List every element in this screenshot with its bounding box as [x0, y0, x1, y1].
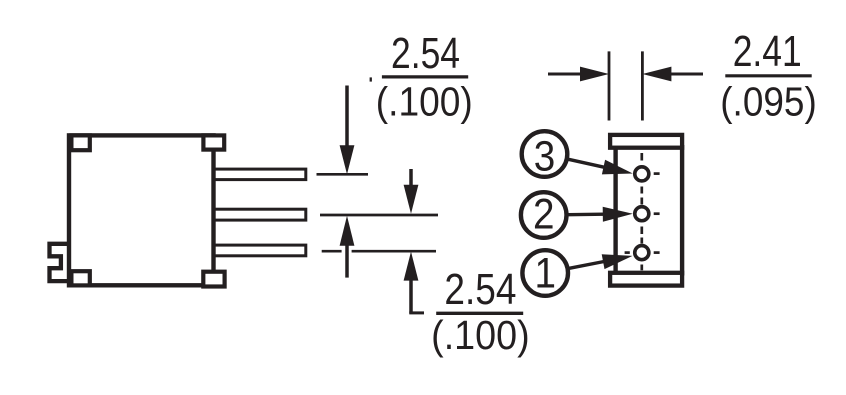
svg-text:2.54: 2.54: [391, 30, 460, 78]
side dash right of pin hole 3: [654, 172, 660, 175]
dimension extension line at pin 2 level: [320, 214, 438, 217]
corner standoff top-right: [203, 135, 224, 149]
leader arrow from 2 to pin hole 2: [568, 212, 604, 216]
width dimension extension line left: [608, 51, 611, 120]
front view bottom cap: [610, 273, 682, 286]
bottom dimension fraction bar: [436, 312, 523, 315]
side dash right of pin hole 1: [654, 251, 660, 254]
adjustment screw profile (left side zigzag): [50, 244, 70, 281]
trimmer body outline (side view): [69, 135, 214, 285]
width dimension extension line right: [641, 51, 644, 120]
dashed centerline segment below pin hole 1: [640, 265, 643, 271]
width dimension arrow pointing left: [668, 73, 703, 76]
terminal label circle 3: [522, 131, 568, 177]
pin 1 lead (bottom, side view): [214, 245, 306, 256]
svg-text:2.54: 2.54: [444, 266, 516, 314]
dimension extension line at pin 1 level (left segment): [322, 250, 342, 253]
dashed centerline segments between pin holes 2 and 1: [640, 227, 643, 235]
front view top cap: [610, 135, 682, 148]
pin hole 1 (bottom): [635, 246, 649, 260]
dimension arrow up to pin2 line: [345, 244, 349, 278]
dimension arrow up to pin1 line with elbow leader: [409, 278, 413, 314]
svg-text:(.100): (.100): [431, 312, 530, 358]
svg-text:2.41: 2.41: [733, 28, 802, 76]
corner standoff bottom-right: [203, 272, 224, 287]
leader arrow from 1 to pin hole 1: [569, 262, 604, 269]
svg-text:(.100): (.100): [376, 78, 473, 124]
pin 3 lead (top, side view): [214, 169, 306, 180]
front view body: [616, 147, 683, 273]
corner standoff top-left: [71, 135, 89, 150]
svg-text:3: 3: [534, 132, 556, 180]
dashed centerline segment above pin hole 3: [640, 153, 643, 161]
stray tick mark left of top label: [370, 77, 372, 81]
top dimension fraction bar: [382, 75, 468, 78]
dimension arrow down to pin2 line: [409, 169, 413, 190]
pin 2 lead (middle, side view): [214, 209, 306, 220]
dimension arrow down to pin3 line: [345, 86, 349, 149]
pin hole 2 (middle): [635, 207, 649, 221]
width dimension fraction bar: [725, 74, 811, 77]
svg-text:1: 1: [534, 250, 556, 298]
leader arrow from 3 to pin hole 3: [568, 159, 605, 167]
pin hole 3 (top): [635, 167, 649, 181]
dimension extension line at pin 1 level (right segment): [352, 250, 436, 253]
terminal label circle 2: [521, 192, 567, 238]
dimension extension line at pin 3 level: [317, 173, 369, 176]
svg-text:2: 2: [533, 191, 555, 239]
width dimension arrow pointing right: [548, 73, 583, 76]
terminal label circle 1: [522, 250, 568, 296]
svg-text:(.095): (.095): [720, 79, 817, 125]
dashed centerline segments between pin holes 3 and 2: [640, 187, 643, 194]
side dash right of pin hole 2: [654, 212, 660, 215]
corner standoff bottom-left: [71, 271, 89, 285]
side dash left of pin hole 1: [625, 251, 630, 254]
